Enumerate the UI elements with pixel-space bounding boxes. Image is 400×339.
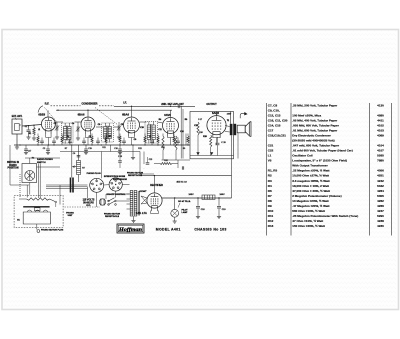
svg-text:INTERSTATION NOISE: INTERSTATION NOISE <box>104 175 126 178</box>
svg-text:4238: 4238 <box>377 219 384 223</box>
svg-text:6BA6: 6BA6 <box>122 112 129 116</box>
svg-text:C6: C6 <box>98 124 100 126</box>
svg-text:Dry Electrolytic Condenser: Dry Electrolytic Condenser <box>292 134 331 138</box>
svg-text:4104: 4104 <box>377 144 384 148</box>
svg-text:2 Megohm Potentiometer (Volume: 2 Megohm Potentiometer (Volume) <box>292 194 341 198</box>
svg-text:C2: C2 <box>54 123 56 125</box>
svg-text:R12: R12 <box>138 148 141 150</box>
svg-text:C11: C11 <box>158 129 161 131</box>
svg-text:R6: R6 <box>268 189 272 193</box>
svg-text:R12: R12 <box>164 160 167 162</box>
svg-text:245V: 245V <box>188 194 194 196</box>
svg-text:LAMP: LAMP <box>182 211 189 214</box>
svg-text:Loudspeaker, 5" x 6" (1030 Ohm: Loudspeaker, 5" x 6" (1030 Ohm Field) <box>292 159 347 163</box>
svg-text:560 Ohm ±10%, ½ Watt: 560 Ohm ±10%, ½ Watt <box>292 209 325 213</box>
svg-text:10,000 Ohm ±27%, ½ Watt: 10,000 Ohm ±27%, ½ Watt <box>292 174 329 178</box>
svg-text:C13: C13 <box>194 125 197 127</box>
svg-text:R3: R3 <box>109 136 111 138</box>
svg-text:.47 Megohm ±20%, ½ Watt: .47 Megohm ±20%, ½ Watt <box>292 204 329 208</box>
svg-text:R3: R3 <box>268 179 272 183</box>
svg-text:5342: 5342 <box>377 184 384 188</box>
svg-text:4056: 4056 <box>377 169 384 173</box>
svg-text:18,000 Ohm ± 10%, 2 Watt: 18,000 Ohm ± 10%, 2 Watt <box>292 184 329 188</box>
svg-text:R11: R11 <box>102 147 105 149</box>
svg-text:RADIO: RADIO <box>9 164 17 167</box>
svg-text:100 Mmf ±20%, Mica: 100 Mmf ±20%, Mica <box>292 114 321 118</box>
svg-text:C9: C9 <box>134 139 136 141</box>
svg-text:UNIT: UNIT <box>68 215 74 217</box>
svg-text:PILOT: PILOT <box>181 210 188 212</box>
svg-text:50-60CPS: 50-60CPS <box>83 202 94 204</box>
svg-text:R1: R1 <box>29 133 31 135</box>
svg-text:4262: 4262 <box>377 199 384 203</box>
svg-text:C4: C4 <box>72 123 74 125</box>
svg-text:OUTPUT: OUTPUT <box>206 103 217 106</box>
svg-text:.22 Megohm ±20%, ½ Watt: .22 Megohm ±20%, ½ Watt <box>292 169 329 173</box>
svg-text:4369: 4369 <box>377 134 384 138</box>
svg-text:4264: 4264 <box>377 189 384 193</box>
svg-text:R2: R2 <box>268 174 272 178</box>
svg-text:R2: R2 <box>67 136 69 138</box>
svg-text:PHONO MOTOR PLUG: PHONO MOTOR PLUG <box>41 229 64 231</box>
svg-text:SUPPRESSOR: SUPPRESSOR <box>113 179 127 181</box>
svg-text:L1: L1 <box>268 154 272 158</box>
svg-text:C8: C8 <box>121 124 123 126</box>
svg-text:C21: C21 <box>268 144 274 148</box>
svg-text:5Y3GT: 5Y3GT <box>140 191 148 193</box>
svg-text:4103: 4103 <box>377 129 384 133</box>
svg-text:R.F.: R.F. <box>45 103 50 106</box>
svg-text:2ND. DET-AVC-1ST: 2ND. DET-AVC-1ST <box>161 103 184 106</box>
svg-text:240V: 240V <box>219 194 225 196</box>
svg-text:6AV6: 6AV6 <box>164 113 171 117</box>
svg-text:CONDENSER: CONDENSER <box>82 103 98 106</box>
svg-text:R7: R7 <box>65 148 67 150</box>
svg-text:C14, C15: C14, C15 <box>268 124 281 128</box>
svg-text:R1, R5: R1, R5 <box>268 169 278 173</box>
svg-text:4251: 4251 <box>377 174 384 178</box>
svg-text:4242: 4242 <box>377 179 384 183</box>
svg-text:C7, C8: C7, C8 <box>268 104 278 108</box>
svg-text:PHONO: PHONO <box>66 213 74 215</box>
svg-text:115 VOLTS: 115 VOLTS <box>83 200 95 202</box>
svg-text:POSITION: POSITION <box>8 168 19 170</box>
svg-text:10 Megohm ±20%, ½ Watt: 10 Megohm ±20%, ½ Watt <box>292 199 328 203</box>
svg-text:4102: 4102 <box>377 124 384 128</box>
svg-text:Hoffman: Hoffman <box>118 228 143 233</box>
svg-text:6BA6: 6BA6 <box>78 112 85 116</box>
svg-text:ON-OFF CONTROL: ON-OFF CONTROL <box>107 194 127 196</box>
svg-text:RECEPTACLE: RECEPTACLE <box>128 174 143 177</box>
svg-text:C14: C14 <box>180 131 183 133</box>
svg-text:R10: R10 <box>199 132 202 134</box>
svg-text:5265: 5265 <box>377 154 384 158</box>
svg-text:C22: C22 <box>268 149 274 153</box>
svg-text:RECTIFIER: RECTIFIER <box>150 184 163 187</box>
svg-text:C9, C10,: C9, C10, <box>268 109 280 113</box>
svg-text:C19: C19 <box>88 148 91 150</box>
svg-text:EXT. ANT.: EXT. ANT. <box>12 115 23 118</box>
svg-text:A.C.: A.C. <box>86 204 91 207</box>
svg-text:L3: L3 <box>149 136 151 138</box>
svg-text:R9: R9 <box>268 204 272 208</box>
svg-text:R10: R10 <box>203 136 206 138</box>
svg-text:NO 47 PIL.B.: NO 47 PIL.B. <box>178 200 191 203</box>
svg-text:Oscillator Coil: Oscillator Coil <box>292 154 313 158</box>
svg-text:C5: C5 <box>89 136 91 138</box>
svg-text:(30-20/20 mfd 400/450/25 Volt): (30-20/20 mfd 400/450/25 Volt) <box>292 139 334 143</box>
svg-text:R4: R4 <box>159 119 161 121</box>
svg-text:T2: T2 <box>227 120 229 122</box>
svg-text:C10: C10 <box>140 127 143 129</box>
svg-text:4107: 4107 <box>377 149 384 153</box>
svg-text:3.3 megohm ±85%, ½ Watt: 3.3 megohm ±85%, ½ Watt <box>292 179 329 183</box>
svg-text:4247: 4247 <box>377 209 384 213</box>
svg-text:R12: R12 <box>268 219 274 223</box>
svg-text:.005 Mfd, 600 Volt, Tubular Pa: .005 Mfd, 600 Volt, Tubular Paper <box>292 124 339 128</box>
svg-text:RECEPTACLE: RECEPTACLE <box>105 215 120 218</box>
svg-text:.01 mfd 600 Volt, Tubular Pape: .01 mfd 600 Volt, Tubular Paper (Hand Ce… <box>292 149 352 153</box>
svg-text:6BE6: 6BE6 <box>38 112 45 116</box>
svg-text:.047 mfd, 600 Volt, Tubular Pa: .047 mfd, 600 Volt, Tubular Paper <box>292 144 340 148</box>
svg-text:SWITCH IN: SWITCH IN <box>7 162 19 164</box>
svg-text:R10: R10 <box>268 209 274 213</box>
svg-text:7880: 7880 <box>377 159 384 163</box>
svg-text:.05 Mfd, 400 Volt, Tubular Pap: .05 Mfd, 400 Volt, Tubular Paper <box>292 119 338 123</box>
svg-text:CHASSIS No 103: CHASSIS No 103 <box>194 228 226 232</box>
svg-text:4580: 4580 <box>377 114 384 118</box>
svg-text:C3: C3 <box>43 148 45 150</box>
svg-text:6.3V. 2.7A: 6.3V. 2.7A <box>136 212 147 215</box>
svg-text:4266: 4266 <box>377 204 384 208</box>
svg-text:PHONO PLUG: PHONO PLUG <box>87 173 101 175</box>
svg-text:47,000 Ohm ± 20%, ½ Watt: 47,000 Ohm ± 20%, ½ Watt <box>292 189 330 193</box>
svg-text:I.F.: I.F. <box>123 102 127 105</box>
svg-text:R11: R11 <box>268 214 274 218</box>
svg-text:5290: 5290 <box>377 214 384 218</box>
svg-text:C18,C19,C21: C18,C19,C21 <box>268 134 287 138</box>
svg-text:4230: 4230 <box>377 224 384 228</box>
svg-text:C 23: C 23 <box>118 156 122 158</box>
svg-text:R13: R13 <box>268 224 274 228</box>
svg-text:R8: R8 <box>268 199 272 203</box>
svg-text:455 KC 10: 455 KC 10 <box>176 182 187 184</box>
svg-text:.25 Megohm Potentiometer With: .25 Megohm Potentiometer With Switch (To… <box>292 214 358 218</box>
svg-text:V5: V5 <box>268 159 272 163</box>
svg-text:C16, C11, C20: C16, C11, C20 <box>268 119 288 123</box>
svg-text:C-17: C-17 <box>198 119 202 121</box>
svg-text:MODEL A401: MODEL A401 <box>156 228 181 232</box>
svg-text:5305: 5305 <box>377 194 384 198</box>
svg-text:.01 Mfd, 600 Volt, Tubular Pap: .01 Mfd, 600 Volt, Tubular Paper <box>292 129 338 133</box>
svg-text:RADIO-PHONO: RADIO-PHONO <box>37 158 53 161</box>
svg-text:C6: C6 <box>73 153 75 155</box>
svg-text:L1: L1 <box>38 129 40 131</box>
svg-text:R7: R7 <box>268 194 272 198</box>
svg-text:4411: 4411 <box>377 119 384 123</box>
svg-text:R2: R2 <box>32 157 34 159</box>
svg-text:C17: C17 <box>268 129 274 133</box>
svg-text:240V: 240V <box>227 114 232 116</box>
svg-text:C17: C17 <box>28 151 31 153</box>
svg-text:4130: 4130 <box>377 104 384 108</box>
svg-text:47 Ohm ±10%, ½ Watt: 47 Ohm ±10%, ½ Watt <box>292 219 323 223</box>
svg-text:C15: C15 <box>149 159 152 161</box>
svg-text:C12, C13: C12, C13 <box>268 114 281 118</box>
svg-text:.25 Mfd, 200 Volt, Tubular Pap: .25 Mfd, 200 Volt, Tubular Paper <box>292 104 338 108</box>
svg-text:With Output Transformer: With Output Transformer <box>292 164 328 168</box>
svg-text:R6: R6 <box>185 119 187 121</box>
svg-text:150 Ohm ±20%, ½ Watt: 150 Ohm ±20%, ½ Watt <box>292 224 325 228</box>
svg-text:R4: R4 <box>268 184 272 188</box>
svg-text:C1: C1 <box>25 126 27 128</box>
svg-text:C16: C16 <box>114 148 117 150</box>
